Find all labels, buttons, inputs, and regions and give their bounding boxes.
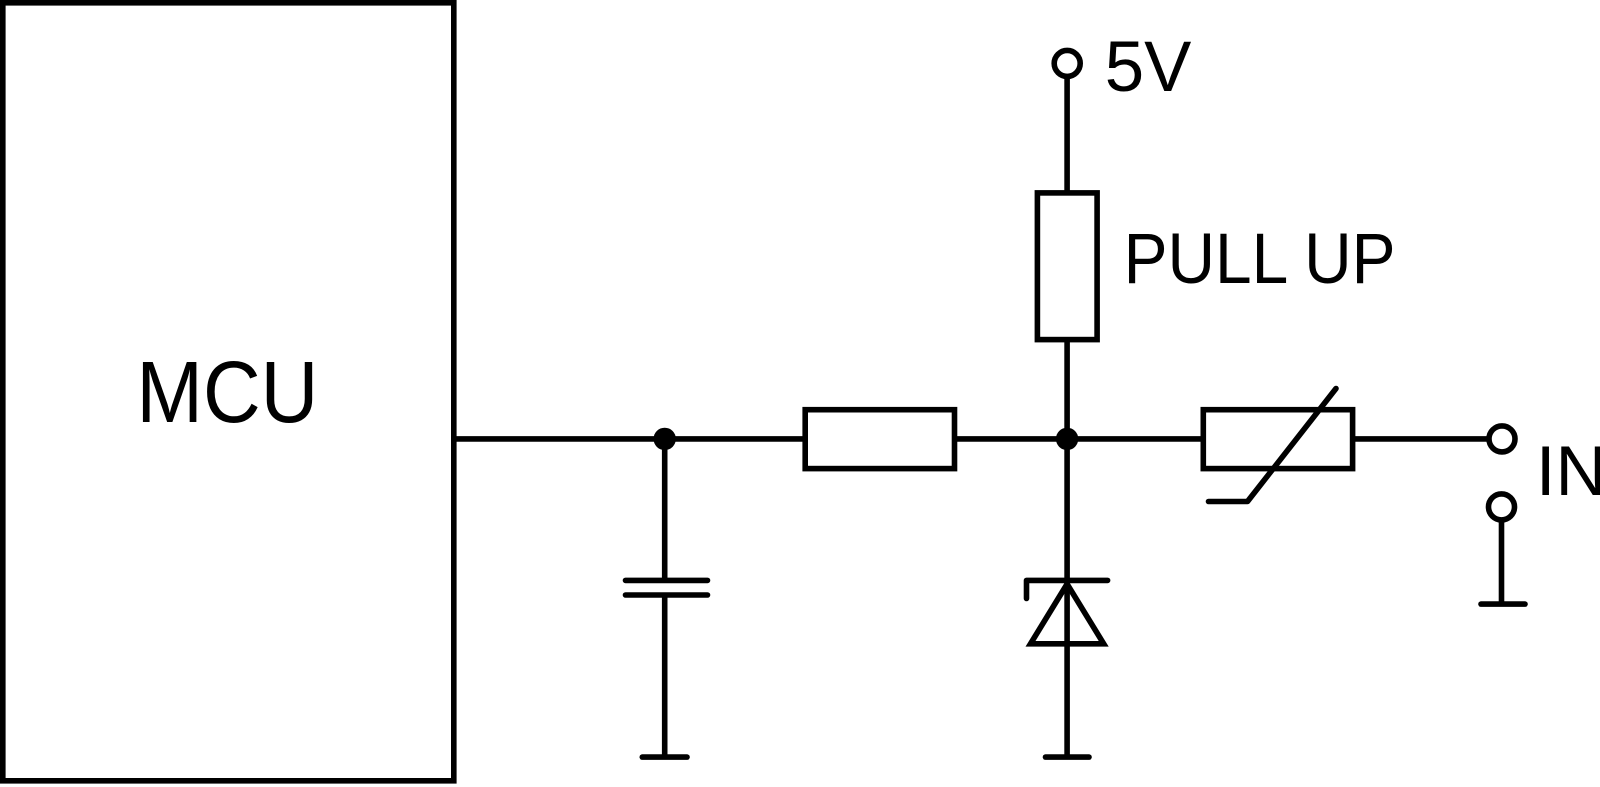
MCU block U1	[3, 3, 454, 781]
svg-text:PULL UP: PULL UP	[1124, 219, 1396, 299]
pull-up resistor R2 body	[1037, 193, 1097, 340]
wire node B to varistor RV1	[1066, 436, 1205, 442]
junction node B	[1056, 428, 1078, 450]
zener diode D1 cathode bar with hook	[1027, 580, 1108, 598]
wire node A down to capacitor C1	[662, 439, 668, 580]
5V supply terminal	[1054, 50, 1080, 76]
ground symbol below capacitor C1	[642, 754, 687, 760]
capacitor C1 bottom plate	[626, 592, 708, 598]
wire node B down through zener diode D1 to ground	[1064, 439, 1070, 757]
wire MCU output to node A	[454, 436, 666, 442]
varistor RV1 body	[1203, 410, 1352, 469]
junction node A	[654, 428, 676, 450]
IN return terminal	[1489, 494, 1515, 520]
resistor R1 body	[805, 410, 954, 469]
ground symbol below zener diode D1	[1046, 754, 1090, 760]
IN signal terminal	[1489, 426, 1515, 452]
wire capacitor C1 to ground	[662, 595, 668, 757]
svg-text:MCU: MCU	[136, 343, 318, 441]
wire varistor RV1 to IN terminal	[1352, 436, 1503, 442]
varistor RV1 diagonal stroke	[1209, 389, 1337, 502]
svg-text:IN: IN	[1536, 431, 1600, 510]
ground symbol below IN return terminal	[1481, 601, 1525, 607]
zener diode D1 triangle	[1031, 584, 1104, 644]
svg-text:5V: 5V	[1105, 27, 1192, 107]
wire IN return terminal to ground	[1499, 507, 1505, 604]
wire node A to resistor R1	[664, 436, 807, 442]
wire resistor R1 to node B	[953, 436, 1068, 442]
capacitor C1 top plate	[626, 578, 708, 584]
wire node B up to pull-up resistor R2	[1064, 340, 1070, 439]
wire pull-up resistor R2 to 5V terminal	[1064, 63, 1070, 194]
